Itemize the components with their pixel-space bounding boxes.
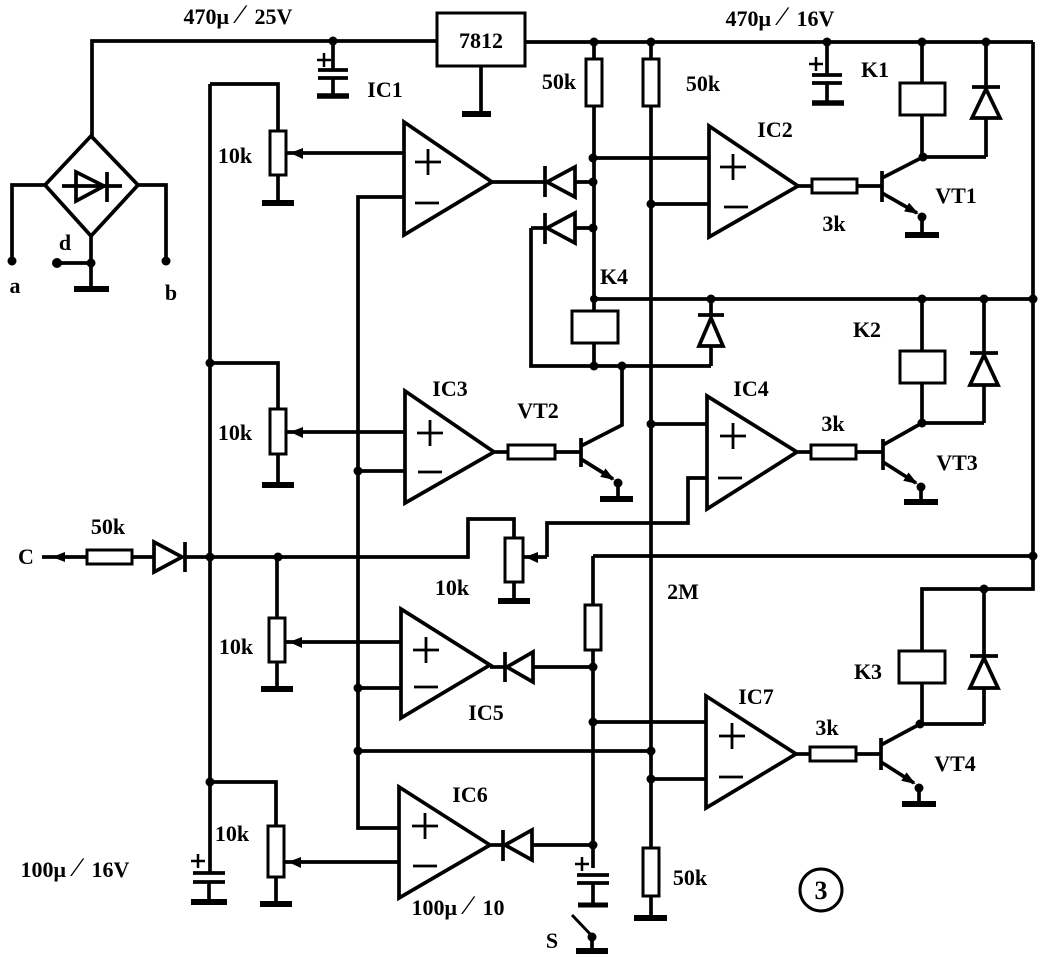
diode D1 at IC1 output <box>492 166 593 197</box>
svg-text:K4: K4 <box>600 264 628 289</box>
svg-text:50k: 50k <box>91 514 126 539</box>
svg-text:IC3: IC3 <box>432 376 467 401</box>
bridge rectifier <box>45 136 138 236</box>
node a <box>8 257 17 266</box>
svg-text:d: d <box>59 230 71 255</box>
potentiometer 10k (IC1) <box>262 131 303 203</box>
node 593,845 <box>589 841 598 850</box>
wire terminal d <box>57 261 91 265</box>
node 651,424 <box>647 420 656 429</box>
op-amp IC3 <box>405 391 494 503</box>
wire top-left rail from bridge to 7812 <box>92 41 437 136</box>
wire pot4 wiper to IC6 - <box>285 860 399 864</box>
node 1033,299 <box>1029 295 1038 304</box>
diode K3 flyback <box>970 589 998 724</box>
wire IC5 - input <box>358 686 401 690</box>
svg-text:VT4: VT4 <box>934 751 976 776</box>
op-amp IC1 <box>404 122 492 235</box>
svg-text:K1: K1 <box>861 57 889 82</box>
regulator 7812 <box>437 13 525 66</box>
svg-text:50k: 50k <box>686 71 721 96</box>
svg-text:IC7: IC7 <box>738 684 773 709</box>
node 358,688 <box>354 684 363 693</box>
svg-text:b: b <box>165 280 177 305</box>
resistor 2M <box>585 556 601 650</box>
wire IC3 - input <box>358 469 405 473</box>
wire bus x=358 (IC1 - feedback bus) <box>358 197 404 828</box>
op-amp IC4 <box>707 396 797 509</box>
svg-text:IC5: IC5 <box>468 700 503 725</box>
node 593,667 <box>589 663 598 672</box>
transistor VT2 <box>581 366 633 499</box>
diode K1 flyback <box>972 42 1000 157</box>
svg-text:3k: 3k <box>822 211 846 236</box>
op-amp IC2 <box>709 126 798 237</box>
svg-text:50k: 50k <box>673 865 708 890</box>
resistor 3k (IC4) <box>811 445 856 459</box>
wire 3k to VT4 base <box>856 752 881 756</box>
wire IC7 - input <box>651 777 706 781</box>
node 593,722 <box>589 718 598 727</box>
wire terminal b <box>138 185 166 258</box>
node 358,471 <box>354 467 363 476</box>
wire right row y=556 <box>593 554 1033 558</box>
svg-text:100μ∕10: 100μ∕10 <box>412 890 505 920</box>
node b <box>162 257 171 266</box>
transistor VT1 <box>882 157 939 235</box>
wire IC4 - input from mid pot wiper <box>547 478 707 557</box>
node 278,557 <box>274 553 283 562</box>
wire pot2 wiper to IC3 + <box>287 430 405 434</box>
potentiometer 10k (IC5) <box>261 557 302 689</box>
bridge diode <box>62 184 122 188</box>
wire pot R1 top feed <box>210 84 278 131</box>
resistor 50k bottom <box>634 848 667 918</box>
switch S <box>572 915 608 951</box>
node 594,158 <box>589 154 598 163</box>
wire 3k to VT3 base <box>856 450 883 454</box>
relay K3 <box>899 651 945 724</box>
wire bus x=593 lower <box>591 650 595 868</box>
wire top-right rail from 7812 to right edge <box>525 40 1033 44</box>
op-amp IC6 <box>399 787 490 898</box>
wire bridge bottom <box>89 236 93 288</box>
node 594,228 <box>589 224 598 233</box>
node d <box>52 258 62 268</box>
resistor 3k (IC7) <box>810 747 856 761</box>
capacitor 470u/16V <box>809 42 844 103</box>
resistor 3k (IC2) <box>812 179 857 193</box>
wire bus x=650 <box>649 42 653 848</box>
ground bridge <box>74 286 109 292</box>
wire D2 to row366 <box>531 228 711 366</box>
node VT4 collector <box>916 720 925 729</box>
wire left bus x=210 <box>208 84 212 872</box>
node 210,363 <box>206 359 215 368</box>
svg-text:VT3: VT3 <box>936 450 978 475</box>
svg-text:10k: 10k <box>435 575 470 600</box>
node VT2 collector top <box>618 362 627 371</box>
svg-text:a: a <box>10 273 21 298</box>
wire bus x=594 upper <box>592 42 596 299</box>
node 651,779 <box>647 775 656 784</box>
wire IC7 out <box>796 752 810 756</box>
node VT1 collector <box>919 153 928 162</box>
wire C row to mid pot <box>185 519 514 557</box>
potentiometer 10k (IC3) <box>210 363 303 485</box>
node 594,182 <box>589 178 598 187</box>
svg-text:3: 3 <box>815 876 828 905</box>
svg-text:10k: 10k <box>218 143 253 168</box>
wire pot1 wiper to IC1 + <box>287 151 404 155</box>
wire right edge bus down to K3 <box>922 42 1033 651</box>
ground 7812 <box>479 66 483 112</box>
svg-text:3k: 3k <box>815 715 839 740</box>
transistor VT3 <box>883 423 938 502</box>
svg-text:C: C <box>18 544 34 569</box>
wire pot3 wiper to IC5 + <box>286 640 401 644</box>
node K1 on rail <box>918 38 927 47</box>
node 210,557 <box>206 553 215 562</box>
svg-text:VT2: VT2 <box>517 398 559 423</box>
svg-text:10k: 10k <box>219 634 254 659</box>
svg-text:IC1: IC1 <box>367 77 402 102</box>
terminal C row <box>42 552 87 562</box>
node 984,589 <box>980 585 989 594</box>
node 358,751 <box>354 747 363 756</box>
svg-text:50k: 50k <box>542 69 577 94</box>
figure number circle 3 <box>800 869 842 911</box>
node cap470-25 on rail <box>329 37 338 46</box>
potentiometer 10k (mid, IC4) <box>498 538 547 601</box>
relay K4 <box>572 299 618 366</box>
svg-text:IC4: IC4 <box>733 376 768 401</box>
resistor 50k (C) <box>87 550 132 564</box>
node VT3 collector <box>918 419 927 428</box>
diode K2 flyback <box>970 299 998 423</box>
wire IC2 - input <box>651 202 709 206</box>
capacitor 100u/10 with switch S <box>575 857 609 905</box>
svg-text:3k: 3k <box>821 411 845 436</box>
transistor VT4 <box>881 724 936 804</box>
svg-text:VT1: VT1 <box>935 183 977 208</box>
svg-text:K3: K3 <box>854 659 882 684</box>
wire VT1 collector row <box>923 155 986 159</box>
node diode K1 on rail <box>982 38 991 47</box>
node 651,204 <box>647 200 656 209</box>
node 651,751 <box>647 747 656 756</box>
resistor 50k right top <box>643 59 659 106</box>
node 984,299 <box>980 295 989 304</box>
wire IC4 out <box>797 450 811 454</box>
svg-text:IC2: IC2 <box>757 117 792 142</box>
wire IC4 + input <box>651 422 707 426</box>
potentiometer 10k (IC6) <box>210 782 301 904</box>
svg-text:10k: 10k <box>215 821 250 846</box>
node on rail 594 <box>590 38 599 47</box>
svg-text:K2: K2 <box>853 317 881 342</box>
svg-text:2M: 2M <box>667 579 699 604</box>
wire IC7 + input <box>593 720 706 724</box>
svg-text:IC6: IC6 <box>452 782 487 807</box>
svg-text:100μ∕16V: 100μ∕16V <box>21 852 130 882</box>
resistor 50k left top <box>586 59 602 106</box>
diode IC6 output <box>490 830 593 861</box>
node on rail 651 <box>647 38 656 47</box>
capacitor 100u/16V <box>191 854 227 902</box>
wire VT4 collector row <box>920 722 984 726</box>
node 210,782 <box>206 778 215 787</box>
op-amp IC7 <box>706 696 796 808</box>
wire +12V row y=299 <box>594 297 1033 301</box>
diode C row <box>132 542 185 572</box>
wire to VT2 base <box>555 450 581 454</box>
node 922,299 <box>918 295 927 304</box>
svg-text:470μ∕25V: 470μ∕25V <box>184 0 293 29</box>
wire IC3 out <box>494 450 508 454</box>
diode D2 below <box>531 213 593 244</box>
wire VT3 collector row <box>922 421 984 425</box>
op-amp IC5 <box>401 609 490 718</box>
capacitor 470u/25V <box>317 41 349 96</box>
svg-text:S: S <box>546 928 558 953</box>
diode K4 flyback <box>698 299 724 366</box>
svg-text:7812: 7812 <box>459 28 503 53</box>
wire IC2 out <box>798 184 812 188</box>
wire row y=751 <box>358 749 651 753</box>
diode IC5 output <box>490 652 593 682</box>
node bridge bottom junction <box>87 259 96 268</box>
node 594,299 <box>590 295 598 303</box>
node cap470-16 on rail <box>823 38 832 47</box>
svg-text:470μ∕16V: 470μ∕16V <box>726 1 835 31</box>
svg-text:10k: 10k <box>218 420 253 445</box>
wire 3k to VT1 base <box>857 184 882 188</box>
relay K1 <box>900 42 945 157</box>
wire IC2 + input <box>593 156 709 160</box>
node 711,299 <box>707 295 716 304</box>
wire terminal a <box>12 185 45 258</box>
relay K2 <box>900 299 945 423</box>
resistor VT2 base <box>508 445 555 459</box>
node K4 bottom <box>590 362 599 371</box>
node 1033,556 <box>1029 552 1038 561</box>
